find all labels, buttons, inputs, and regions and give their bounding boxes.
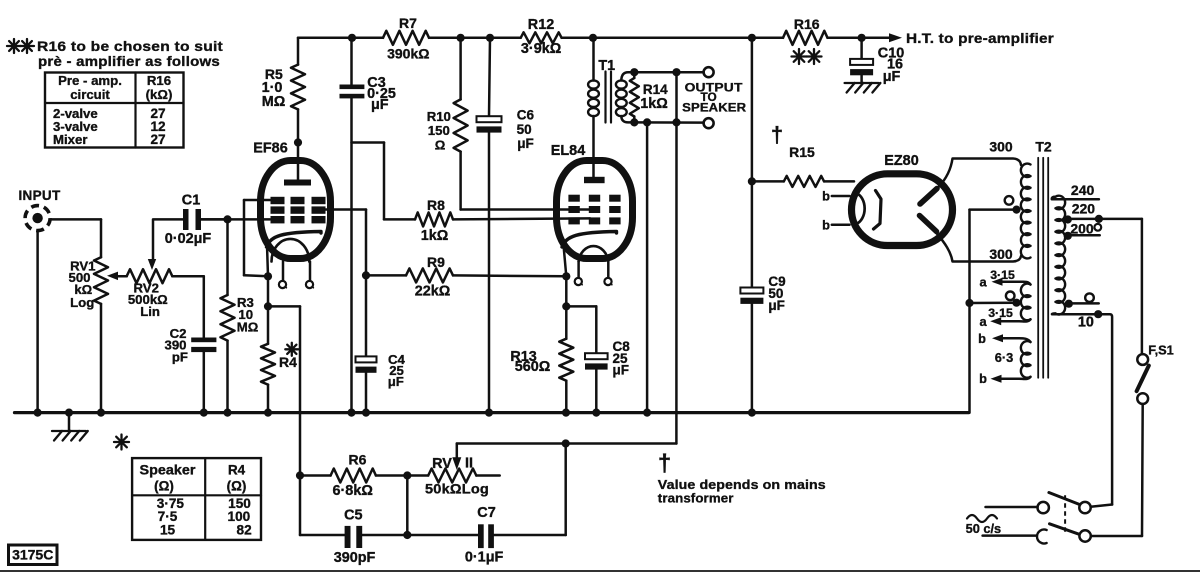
svg-text:RV: RV	[432, 456, 452, 472]
node rail R4	[264, 409, 272, 417]
wire C10 bottom	[860, 75, 863, 83]
wire cathode link	[267, 276, 270, 306]
svg-text:b: b	[822, 189, 830, 204]
node C10 top	[858, 34, 866, 42]
EZ80 cathode bar	[874, 191, 882, 230]
resistor R14	[633, 72, 636, 78]
resistor R12	[521, 32, 562, 43]
capacitor C6	[477, 116, 502, 122]
svg-text:μF: μF	[388, 374, 404, 389]
wire 240 lead	[1052, 197, 1099, 199]
svg-text:b: b	[978, 331, 986, 346]
svg-text:C5: C5	[344, 508, 362, 524]
wire T1 sec top	[621, 72, 703, 80]
terminal output bottom	[704, 118, 714, 128]
resistor R5	[291, 65, 305, 110]
wire RV1 bottom	[100, 304, 103, 413]
EF86 screen stub	[325, 208, 366, 211]
wire C2 bottom	[203, 352, 206, 413]
svg-text:R4: R4	[228, 463, 246, 478]
capacitor C9	[740, 288, 763, 294]
ground main	[68, 413, 71, 431]
wire C8 bottom	[595, 370, 598, 413]
svg-text:560Ω: 560Ω	[515, 359, 551, 375]
svg-text:II: II	[465, 456, 473, 472]
capacitor C10	[850, 59, 873, 65]
node rail T1sec	[643, 409, 651, 417]
wire left leg	[299, 476, 302, 536]
capacitor C2	[191, 338, 216, 343]
wire C1 left	[154, 218, 183, 221]
switch lower	[1079, 530, 1090, 541]
svg-text:F,S1: F,S1	[1148, 343, 1174, 358]
EF86 cathode exit	[267, 245, 268, 276]
label 3175C	[9, 545, 58, 565]
svg-text:R16 to be chosen to suit: R16 to be chosen to suit	[37, 38, 223, 54]
node rail C2	[200, 409, 208, 417]
switch upper	[1038, 502, 1049, 513]
node bottom mid	[403, 531, 411, 539]
svg-text:T1: T1	[598, 58, 615, 74]
EL84 cathode	[562, 232, 617, 248]
T2 HT winding	[1021, 164, 1031, 259]
node HT CT	[1012, 206, 1020, 214]
svg-text:R8: R8	[427, 197, 445, 213]
node 0 tap	[1065, 300, 1073, 308]
EL84 anode bar	[584, 177, 605, 183]
wire C10 top	[860, 38, 863, 59]
EZ80 filament	[856, 193, 865, 224]
resistor R3	[221, 295, 235, 341]
capacitor C8	[585, 353, 608, 359]
node R13 top	[562, 302, 570, 310]
node out top	[672, 68, 680, 76]
asterisk note	[120, 435, 122, 450]
wire jack down	[36, 231, 39, 413]
svg-text:pF: pF	[172, 350, 188, 365]
wire 220 to fuse	[1141, 219, 1144, 354]
wire 6.3 top lead	[997, 338, 1031, 342]
potentiometer RV1	[94, 257, 108, 304]
svg-text:EL84: EL84	[551, 143, 585, 159]
capacitor C4	[356, 356, 377, 362]
svg-text:R9: R9	[427, 254, 445, 270]
svg-text:EZ80: EZ80	[884, 153, 918, 169]
svg-text:μF: μF	[371, 97, 389, 113]
wire feedback top	[268, 305, 300, 308]
EF86 heater pin a2	[309, 262, 312, 281]
node rail R3	[223, 409, 231, 417]
node R5 EF86	[294, 138, 302, 146]
wire C3 down	[350, 98, 353, 412]
svg-text:200: 200	[1070, 221, 1094, 237]
svg-text:a: a	[979, 314, 987, 329]
wire 3.15 bottom lead	[995, 319, 1031, 321]
svg-text:22kΩ: 22kΩ	[415, 284, 451, 300]
EF86 cathode	[267, 232, 322, 248]
EF86 anode bar	[284, 180, 311, 186]
svg-text:1kΩ: 1kΩ	[421, 228, 449, 244]
svg-text:C1: C1	[182, 193, 200, 209]
valve EZ80 envelope	[852, 174, 953, 246]
svg-text:0·1μF: 0·1μF	[465, 550, 504, 566]
wire EZ80 out bottom	[936, 233, 1021, 262]
svg-text:EF86: EF86	[253, 141, 287, 157]
node R4 top	[264, 302, 272, 310]
node rail C3	[347, 409, 355, 417]
svg-text:R15: R15	[789, 144, 815, 160]
ground C10	[845, 82, 879, 84]
svg-text:1kΩ: 1kΩ	[640, 96, 668, 112]
wire C1 to RV2 wiper	[152, 219, 155, 259]
wire EF86 top pin	[297, 143, 300, 182]
wire 220	[1068, 218, 1142, 221]
wire EL84 cath link	[565, 276, 568, 306]
EZ80 anode 1	[920, 189, 937, 205]
svg-text:INPUT: INPUT	[19, 188, 61, 203]
EF86 heater arc	[272, 239, 310, 262]
table R16 frame	[45, 73, 184, 148]
node EF86 cathode	[264, 272, 272, 280]
node EF86 anode out	[362, 271, 370, 279]
wire sw upper left	[986, 506, 1038, 509]
wire R3 top	[226, 219, 229, 295]
switch link dashed	[1064, 495, 1066, 532]
node rail R13	[562, 409, 570, 417]
svg-text:Log: Log	[70, 295, 94, 310]
svg-text:(Ω): (Ω)	[154, 479, 174, 494]
svg-text:0·02μF: 0·02μF	[165, 231, 212, 247]
resistor R16	[783, 31, 828, 45]
svg-text:6·8kΩ: 6·8kΩ	[333, 483, 373, 499]
svg-text:b: b	[979, 371, 987, 386]
svg-text:transformer: transformer	[658, 491, 734, 506]
svg-text:μF: μF	[883, 69, 901, 85]
svg-text:R6: R6	[349, 452, 367, 468]
EL84 heater pin a2	[607, 262, 610, 278]
wire R9 to EL84	[453, 274, 566, 277]
svg-text:R7: R7	[399, 15, 417, 31]
svg-text:MΩ: MΩ	[237, 320, 259, 335]
svg-text:150: 150	[428, 123, 450, 138]
wire 6.3 bottom lead	[995, 377, 1031, 379]
svg-text:R4: R4	[279, 354, 297, 370]
EL84 cathode exit	[564, 245, 567, 276]
T1 core	[604, 72, 606, 123]
node R15	[748, 177, 756, 185]
node 10	[1094, 310, 1102, 318]
RV1 wiper arrow	[115, 275, 127, 278]
node out bottom	[672, 118, 680, 126]
wire 0 tap	[1069, 302, 1099, 305]
terminal 200	[1094, 224, 1101, 231]
svg-text:R10: R10	[427, 109, 451, 124]
svg-text:prè - amplifier as follows: prè - amplifier as follows	[38, 53, 220, 69]
EZ80 heater stub b2	[832, 224, 850, 227]
svg-text:50 c/s: 50 c/s	[966, 521, 1002, 536]
wire sw lower left	[983, 534, 1037, 537]
svg-text:H.T. to pre-amplifier: H.T. to pre-amplifier	[906, 30, 1054, 46]
EL84 heater arc	[579, 246, 609, 261]
wire R3 bottom	[226, 341, 229, 413]
svg-text:220: 220	[1072, 201, 1096, 217]
table speaker frame	[132, 458, 261, 540]
EF86 grid wire	[201, 218, 270, 221]
wire HT rail left	[298, 37, 383, 40]
svg-text:a: a	[979, 275, 987, 290]
node CT join	[965, 299, 973, 307]
wire C6 down	[488, 133, 491, 413]
svg-text:†: †	[658, 450, 671, 477]
scan edge line at bottom	[0, 570, 1200, 572]
wire C9 R15 vert	[751, 38, 754, 288]
node R14 top	[630, 68, 638, 76]
RV3 wiper	[456, 444, 459, 459]
valve EF86 envelope	[261, 161, 331, 259]
node 220 tap	[1064, 215, 1072, 223]
EF86 grid squares	[271, 197, 285, 204]
wire T1sec to rail	[646, 122, 649, 412]
resistor R8	[384, 218, 415, 221]
wire C1 right	[201, 218, 228, 221]
potentiometer RV3	[428, 469, 476, 483]
svg-text:MΩ: MΩ	[262, 94, 286, 110]
wire feedback	[457, 442, 677, 445]
svg-text:390pF: 390pF	[334, 550, 376, 566]
node EL84 cathode	[562, 272, 570, 280]
node C9 top	[748, 34, 756, 42]
svg-text:50kΩLog: 50kΩLog	[425, 482, 489, 497]
node rail C8	[592, 409, 600, 417]
T2 heater CT O	[1006, 292, 1015, 301]
svg-text:27: 27	[150, 132, 165, 147]
wire jack right	[51, 218, 102, 221]
node rail C4	[362, 409, 370, 417]
wire EL84 anode pin	[592, 116, 595, 179]
wire ground rail	[15, 411, 969, 414]
svg-text:(kΩ): (kΩ)	[146, 87, 173, 102]
svg-text:Mixer: Mixer	[53, 132, 87, 147]
svg-text:50: 50	[517, 122, 532, 137]
svg-text:μF: μF	[517, 136, 534, 151]
resistor R13	[565, 306, 568, 338]
capacitor C1	[183, 209, 189, 230]
node fb C7	[562, 439, 570, 447]
node C6 top	[486, 34, 494, 42]
node rail jack	[34, 409, 42, 417]
wire R5 top	[297, 38, 300, 65]
node 200 tap	[1064, 232, 1072, 240]
wire R5 bottom	[297, 109, 300, 142]
svg-text:C7: C7	[477, 505, 495, 521]
svg-text:3·15: 3·15	[988, 306, 1013, 320]
svg-text:circuit: circuit	[70, 87, 110, 102]
valve EL84 envelope	[557, 161, 633, 259]
resistor R4	[261, 344, 275, 385]
T2 heater winding 3.15	[1021, 284, 1031, 321]
wire bottom left	[300, 534, 345, 537]
svg-text:R12: R12	[528, 17, 554, 33]
wire 10 lead	[1052, 313, 1112, 504]
svg-text:3175C: 3175C	[12, 547, 53, 563]
wire R4 bottom	[267, 385, 270, 413]
wire branch to R8	[352, 141, 385, 144]
wire R10 to EL84	[459, 152, 462, 210]
wire 200	[1068, 234, 1100, 237]
svg-text:SPEAKER: SPEAKER	[682, 101, 746, 115]
node rail gnd	[65, 409, 73, 417]
capacitor C5	[345, 526, 351, 548]
EF86 g3 wire	[244, 199, 271, 202]
svg-text:T2: T2	[1035, 139, 1052, 155]
EF86 heater pin a1	[282, 262, 285, 281]
capacitor C7	[478, 524, 484, 548]
svg-text:3·9kΩ: 3·9kΩ	[521, 41, 561, 57]
svg-text:390kΩ: 390kΩ	[387, 46, 429, 62]
T1 primary coil	[588, 80, 599, 88]
svg-text:82: 82	[237, 523, 253, 538]
svg-text:R14: R14	[643, 82, 668, 97]
svg-text:Pre - amp.: Pre - amp.	[58, 73, 122, 88]
node rail C9	[748, 409, 756, 417]
T1 secondary coil	[616, 80, 627, 88]
asterisks R16	[798, 49, 800, 64]
wire EZ80 out top	[939, 159, 1022, 188]
wire output link	[675, 72, 678, 122]
wire R8 to EL84	[453, 218, 590, 219]
svg-text:240: 240	[1071, 182, 1095, 198]
node rail RV1	[97, 409, 105, 417]
note asterisks	[13, 39, 15, 53]
wire HT rail mid1	[429, 37, 521, 40]
svg-text:(Ω): (Ω)	[227, 479, 247, 494]
wire C8 top	[566, 305, 596, 308]
wire HT CT	[970, 208, 1017, 211]
T2 mains winding	[1056, 196, 1066, 315]
wire HT rail mid2	[562, 37, 783, 40]
asterisk R4	[291, 343, 293, 356]
svg-text:300: 300	[989, 246, 1013, 262]
svg-text:C6: C6	[517, 108, 535, 123]
EL84 grid squares	[568, 195, 579, 202]
EL84 heater pin a1	[577, 262, 580, 278]
svg-text:Lin: Lin	[140, 304, 160, 319]
terminal output top	[704, 67, 714, 77]
svg-text:6·3: 6·3	[995, 350, 1014, 365]
svg-text:R16: R16	[794, 16, 820, 32]
wire RV2 right	[172, 275, 204, 278]
EZ80 heater stub b1	[832, 195, 850, 198]
wire C4 top	[365, 275, 368, 356]
resistor R10	[459, 38, 462, 100]
wire HT out	[862, 37, 890, 40]
node C1 grid R3	[223, 215, 231, 223]
wire C6 top	[489, 38, 490, 116]
svg-text:Ω: Ω	[435, 138, 446, 153]
node C3 top	[348, 34, 356, 42]
svg-text:b: b	[822, 217, 830, 232]
label mains tilde	[967, 515, 997, 522]
input jack	[25, 206, 50, 231]
wire 3.15 top lead	[996, 282, 1031, 285]
T2 heater winding 6.3	[1021, 341, 1031, 378]
node R6 right	[403, 471, 411, 479]
wire heater CT	[970, 301, 1017, 304]
svg-text:300: 300	[989, 139, 1013, 155]
node heater CT	[1012, 299, 1020, 307]
wire bottom right	[494, 534, 566, 537]
svg-text:μF: μF	[768, 298, 785, 313]
wire C9 bottom	[751, 304, 754, 413]
node R14 bottom	[630, 118, 638, 126]
T2 HT centre tap O	[1005, 196, 1014, 205]
resistor R7	[383, 31, 429, 45]
svg-text:†: †	[771, 122, 783, 147]
capacitor C3	[340, 85, 365, 90]
resistor R15	[752, 180, 784, 183]
node T1 sec gnd	[643, 118, 651, 126]
svg-text:3·15: 3·15	[990, 268, 1015, 282]
wire T1 pri top	[592, 38, 595, 81]
wire T1 sec bottom	[621, 116, 703, 123]
node rail C6	[485, 409, 493, 417]
wire R4 top	[267, 306, 270, 343]
node R6 left	[296, 471, 304, 479]
EZ80 anode 2	[920, 216, 937, 232]
svg-text:15: 15	[160, 523, 176, 538]
node R10 top	[457, 34, 465, 42]
resistor R9	[366, 274, 406, 277]
wire bottom mid	[362, 534, 407, 537]
wire C3 top	[350, 38, 353, 85]
svg-text:μF: μF	[613, 363, 630, 378]
node 220 mid	[1095, 215, 1103, 223]
wire fb down	[675, 122, 678, 443]
fuse FS1	[1137, 354, 1148, 365]
wire C4 bottom	[365, 373, 368, 413]
svg-text:R16: R16	[147, 73, 171, 88]
T2 core	[1037, 158, 1039, 378]
node T1 top	[589, 34, 597, 42]
potentiometer RV2	[127, 269, 173, 283]
svg-text:Speaker: Speaker	[140, 463, 197, 478]
wire HT rail right	[828, 37, 862, 40]
svg-text:10: 10	[1078, 315, 1094, 331]
wire sw upper feed	[1091, 505, 1112, 507]
wire fuse down	[1141, 404, 1144, 536]
terminal O	[1085, 293, 1094, 302]
resistor R6	[300, 474, 331, 477]
